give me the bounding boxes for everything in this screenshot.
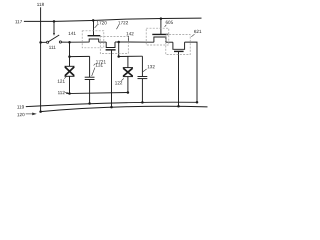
wire tap to capacitor 131 (70, 55, 90, 57)
leader 117 (24, 20, 28, 22)
svg-text:131: 131 (95, 63, 103, 68)
leader arrow 120 (26, 113, 33, 115)
liquid crystal element 122 plates (123, 67, 133, 69)
transistor 621b channel (173, 42, 185, 49)
svg-text:117: 117 (15, 19, 23, 24)
wire node 141 to transistor 1720 (70, 41, 90, 43)
leader 142 (128, 36, 130, 42)
node 142 lower junction (117, 55, 120, 58)
transistor 1720 channel (89, 39, 99, 42)
svg-text:621: 621 (194, 29, 202, 34)
wire gate 621b lead to line C (178, 51, 180, 106)
wire LC 121 bottom lead (69, 76, 71, 93)
liquid crystal element 121 plates (65, 65, 75, 67)
wire node 142 down (118, 42, 120, 57)
wire to right transistors (128, 41, 154, 43)
node left rail end on line C (39, 110, 42, 113)
wire node 141 down to LC 121 (69, 42, 71, 66)
wire left vertical rail 120 (40, 7, 42, 111)
node gate 1720 on rail (92, 19, 95, 22)
wire node 142 branch right (119, 55, 143, 57)
node 621b gate on line C (177, 105, 180, 108)
leader 1722 (117, 25, 119, 29)
liquid crystal element 121 cross (65, 67, 74, 76)
svg-text:1722: 1722 (118, 20, 129, 25)
dashed box transistor 1720 (82, 31, 104, 48)
arrow switch control (53, 33, 55, 36)
node LC 121 on line A (68, 92, 71, 95)
wire between 1720 and 1722 (99, 41, 107, 43)
wire capacitor 131 bottom lead (89, 80, 91, 104)
node left rail to switch (39, 41, 42, 44)
leader 119 (26, 106, 30, 108)
wire 1722 to node 142 (115, 41, 128, 43)
dashed box transistor 605 right (166, 35, 190, 55)
svg-text:605: 605 (165, 20, 173, 25)
svg-text:118: 118 (37, 2, 45, 7)
node 1722 gate on line C (110, 106, 113, 109)
svg-text:132: 132 (147, 64, 155, 69)
svg-text:111: 111 (49, 45, 56, 50)
leader 122 (121, 79, 123, 81)
leader 112 (65, 91, 68, 93)
svg-text:120: 120 (17, 112, 25, 117)
leader 132 (143, 69, 147, 72)
wire LC 122 bottom lead (127, 77, 129, 93)
leader 121 (64, 76, 67, 79)
capacitor 131 bottom plate (85, 79, 95, 81)
leader 131 (92, 68, 95, 76)
leader 621 (191, 34, 194, 37)
wire line C 120 (41, 106, 208, 111)
wire right output (185, 42, 197, 102)
node right output on line B (196, 101, 199, 104)
switch 111 lever (49, 35, 60, 42)
svg-text:142: 142 (126, 31, 134, 36)
wire line A counter electrode 112 (66, 93, 128, 94)
transistor 621a channel (154, 37, 166, 42)
wire capacitor 132 top lead (141, 56, 143, 76)
wire capacitor 131 top lead (89, 56, 91, 77)
wire transistor 1722 gate lead to line C (111, 50, 113, 107)
transistor 621a gate bar (152, 33, 168, 35)
node switch control tap (53, 20, 56, 23)
transistor 1720 gate bar (88, 35, 101, 37)
svg-text:112: 112 (58, 90, 66, 95)
svg-text:119: 119 (17, 104, 25, 109)
capacitor 132 bottom plate (138, 78, 148, 80)
transistor 1722 gate bar (106, 49, 116, 51)
wire capacitor 132 bottom lead (141, 79, 143, 103)
leader 1721 (94, 64, 96, 66)
wire switch control lead (53, 21, 55, 33)
leader 1720 (95, 25, 98, 28)
node capacitor 132 on line B (141, 101, 144, 104)
svg-text:122: 122 (115, 80, 123, 85)
capacitor 132 top plate (138, 76, 148, 78)
node LC 122 end of line A (127, 91, 129, 94)
svg-text:121: 121 (57, 79, 65, 84)
node 141 junction (68, 41, 71, 44)
liquid crystal element 122 cross (123, 68, 132, 76)
leader 605 (165, 25, 167, 27)
wire to switch (41, 41, 47, 43)
switch 111 right contact (59, 41, 61, 43)
node capacitor 131 on line B (88, 102, 91, 105)
svg-text:1720: 1720 (97, 20, 108, 25)
node tap to capacitor 131 (68, 55, 71, 58)
svg-text:141: 141 (68, 31, 76, 36)
wire transistor 1720 gate lead (93, 20, 95, 35)
capacitor 131 top plate (85, 76, 95, 78)
wire line B capacitor line 119 (26, 102, 197, 106)
node 142 junction on wire (117, 41, 120, 44)
wire top rail 117 (24, 18, 202, 21)
transistor 1722 channel (106, 42, 115, 48)
switch 111 left contact (47, 41, 49, 43)
wire LC 122 top lead (127, 56, 129, 67)
wire gate 621a lead (160, 19, 162, 35)
wire between right transistors (166, 41, 173, 43)
dashed box transistor 1722 (100, 37, 128, 54)
dashed box transistor 605 left (146, 28, 169, 45)
node gate 621a on rail (160, 17, 163, 20)
wire switch to node 141 (62, 41, 70, 43)
transistor 621b gate bar (174, 50, 184, 52)
